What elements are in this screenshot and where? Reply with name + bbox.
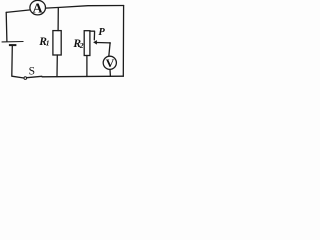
wiper arrowhead P <box>93 40 97 45</box>
resistor R1 box <box>53 31 61 55</box>
svg-text:S: S <box>29 65 35 77</box>
resistor R2 box (rheostat) <box>84 31 90 56</box>
switch S terminal circle <box>24 77 27 80</box>
svg-text:P: P <box>98 27 105 38</box>
junction wiper wire corner <box>109 42 111 44</box>
voltmeter V circle <box>103 56 116 69</box>
wire top-left (ammeter to left corner) <box>6 10 30 13</box>
svg-text:2: 2 <box>79 41 84 50</box>
wire bottom-left (battery to switch) <box>12 46 24 78</box>
wire wiper to voltmeter <box>97 43 111 57</box>
wire R1 bottom <box>56 55 58 77</box>
svg-text:A: A <box>32 1 43 16</box>
battery <box>2 42 24 46</box>
wire bottom bus (right corner to switch blade) <box>42 75 123 78</box>
wire right rail <box>122 6 124 77</box>
wire left rail (corner down to battery) <box>5 12 8 41</box>
wire R2 top terminal (right then down) <box>90 31 95 40</box>
wire ammeter right to top-right corner <box>46 6 124 9</box>
wire voltmeter bottom stub <box>109 69 111 76</box>
ammeter A1 circle <box>30 0 46 15</box>
wire R1 top <box>57 8 59 31</box>
wire R2 bottom <box>86 56 88 77</box>
svg-text:V: V <box>106 56 115 70</box>
switch S blade <box>27 76 42 77</box>
svg-text:1: 1 <box>46 39 50 48</box>
